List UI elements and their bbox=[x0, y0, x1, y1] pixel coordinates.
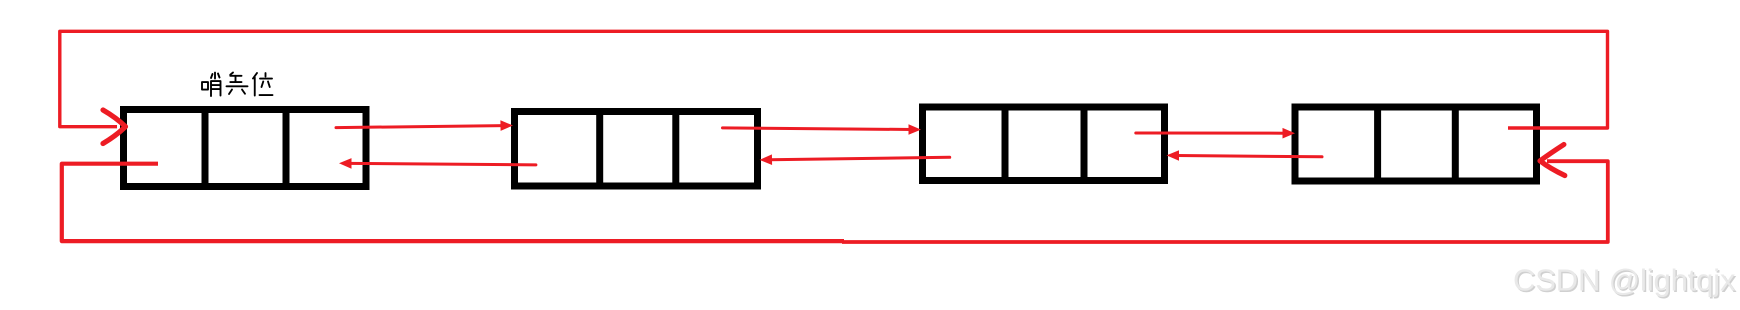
svg-text:CSDN @lightqjx: CSDN @lightqjx bbox=[1513, 263, 1736, 298]
